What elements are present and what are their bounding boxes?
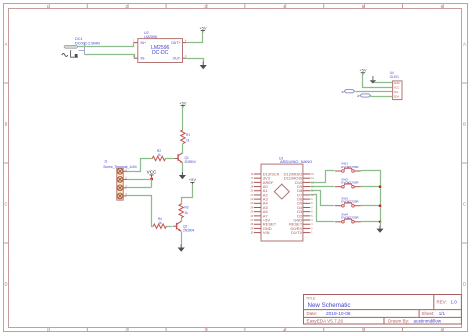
svg-text:R1: R1 bbox=[186, 133, 190, 137]
svg-text:New Schematic: New Schematic bbox=[308, 302, 351, 309]
svg-text:VCC: VCC bbox=[147, 170, 157, 175]
svg-text:Drawn By:: Drawn By: bbox=[388, 319, 409, 324]
svg-text:SCL: SCL bbox=[394, 90, 400, 94]
svg-text:1k: 1k bbox=[186, 139, 190, 143]
svg-text:23: 23 bbox=[250, 203, 253, 205]
svg-text:7: 7 bbox=[311, 207, 313, 209]
svg-text:TITLE:: TITLE: bbox=[306, 297, 316, 301]
svg-text:29: 29 bbox=[250, 228, 253, 230]
svg-text:21: 21 bbox=[250, 195, 253, 197]
svg-text:OUT+: OUT+ bbox=[171, 41, 180, 45]
svg-text:C: C bbox=[4, 202, 7, 207]
svg-text:B: B bbox=[463, 122, 466, 127]
svg-text:26: 26 bbox=[250, 216, 253, 218]
svg-text:19: 19 bbox=[250, 186, 253, 188]
svg-text:A: A bbox=[5, 42, 8, 47]
svg-text:20: 20 bbox=[250, 191, 253, 193]
svg-text:A: A bbox=[463, 42, 466, 47]
svg-text:2N3904: 2N3904 bbox=[183, 228, 194, 232]
svg-text:30: 30 bbox=[250, 233, 253, 235]
svg-text:+5V: +5V bbox=[179, 100, 187, 105]
svg-text:1: 1 bbox=[311, 233, 313, 235]
svg-text:SDA: SDA bbox=[394, 94, 400, 98]
svg-text:VIN: VIN bbox=[263, 230, 270, 235]
svg-text:2N3904: 2N3904 bbox=[185, 160, 196, 164]
svg-text:24: 24 bbox=[250, 207, 253, 209]
svg-text:J1: J1 bbox=[104, 159, 108, 163]
svg-text:1.0: 1.0 bbox=[451, 300, 458, 305]
svg-text:Date:: Date: bbox=[307, 311, 318, 316]
svg-text:27: 27 bbox=[250, 220, 253, 222]
svg-text:IN-: IN- bbox=[141, 57, 147, 61]
svg-text:austinmdillow: austinmdillow bbox=[414, 319, 442, 324]
svg-text:22: 22 bbox=[250, 199, 253, 201]
svg-text:REV:: REV: bbox=[437, 300, 447, 305]
svg-text:R3: R3 bbox=[185, 205, 189, 209]
svg-text:ARDUINO_NANO: ARDUINO_NANO bbox=[280, 159, 312, 164]
svg-text:GND: GND bbox=[394, 81, 400, 85]
svg-text:DC-DC: DC-DC bbox=[152, 50, 169, 56]
svg-text:2018-10-06: 2018-10-06 bbox=[326, 311, 351, 317]
svg-text:25: 25 bbox=[250, 212, 253, 214]
svg-text:OUT-: OUT- bbox=[173, 57, 182, 61]
svg-text:2: 2 bbox=[311, 228, 313, 230]
svg-text:1k: 1k bbox=[157, 153, 161, 157]
svg-text:18: 18 bbox=[250, 182, 253, 184]
svg-text:+5V: +5V bbox=[199, 25, 207, 30]
svg-text:D1/TX: D1/TX bbox=[291, 230, 303, 235]
svg-text:28: 28 bbox=[250, 224, 253, 226]
svg-text:16: 16 bbox=[250, 174, 253, 176]
svg-text:+5V: +5V bbox=[359, 68, 367, 73]
svg-text:9: 9 bbox=[311, 199, 313, 201]
svg-text:B: B bbox=[5, 122, 8, 127]
svg-text:1k: 1k bbox=[185, 211, 189, 215]
svg-text:EasyEDA V5.7.26: EasyEDA V5.7.26 bbox=[307, 319, 344, 324]
svg-text:4: 4 bbox=[311, 220, 313, 222]
svg-text:A: A bbox=[357, 94, 359, 98]
svg-text:1k: 1k bbox=[158, 221, 162, 225]
svg-text:1/1: 1/1 bbox=[439, 311, 446, 316]
svg-text:15: 15 bbox=[311, 174, 314, 176]
svg-text:D: D bbox=[463, 282, 466, 287]
svg-text:3: 3 bbox=[311, 224, 313, 226]
svg-text:14: 14 bbox=[311, 178, 314, 180]
svg-text:+5V: +5V bbox=[189, 177, 197, 182]
svg-text:10: 10 bbox=[311, 195, 314, 197]
svg-text:3: 3 bbox=[185, 55, 187, 58]
svg-text:OLED: OLED bbox=[390, 75, 400, 79]
svg-text:6: 6 bbox=[311, 212, 313, 214]
svg-text:VCC: VCC bbox=[394, 86, 400, 90]
svg-text:17: 17 bbox=[250, 178, 253, 180]
svg-text:A: A bbox=[342, 90, 344, 94]
svg-text:5: 5 bbox=[311, 216, 313, 218]
svg-text:DC002-2.5MM: DC002-2.5MM bbox=[75, 41, 100, 45]
svg-text:8: 8 bbox=[311, 203, 313, 205]
svg-text:Sheet:: Sheet: bbox=[422, 311, 435, 316]
svg-text:IN+: IN+ bbox=[141, 41, 147, 45]
svg-text:D: D bbox=[4, 282, 7, 287]
svg-text:C: C bbox=[463, 202, 466, 207]
